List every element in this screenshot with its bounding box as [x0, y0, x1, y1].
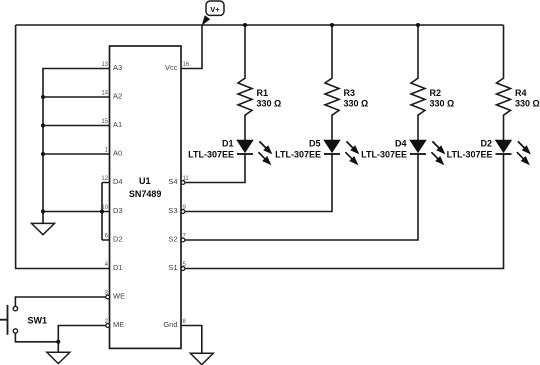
svg-text:330 Ω: 330 Ω [344, 99, 369, 109]
svg-text:D4: D4 [113, 177, 123, 186]
svg-text:R3: R3 [344, 88, 356, 98]
svg-text:S2: S2 [168, 235, 177, 244]
svg-text:4: 4 [105, 262, 109, 268]
svg-text:LTL-307EE: LTL-307EE [188, 150, 234, 160]
svg-text:R2: R2 [430, 88, 442, 98]
svg-text:A0: A0 [113, 149, 122, 158]
svg-text:U1: U1 [139, 176, 151, 186]
svg-text:D1: D1 [113, 263, 123, 272]
svg-text:S4: S4 [168, 177, 177, 186]
svg-text:WE: WE [113, 292, 125, 301]
svg-text:16: 16 [183, 62, 190, 68]
svg-text:R4: R4 [515, 88, 527, 98]
svg-text:8: 8 [183, 319, 187, 325]
svg-text:LTL-307EE: LTL-307EE [447, 150, 493, 160]
svg-text:1: 1 [105, 148, 109, 154]
svg-text:A3: A3 [113, 63, 122, 72]
svg-text:R1: R1 [257, 88, 269, 98]
svg-text:A2: A2 [113, 92, 122, 101]
svg-text:11: 11 [183, 176, 190, 182]
svg-text:330 Ω: 330 Ω [515, 99, 540, 109]
svg-text:Gnd: Gnd [163, 320, 177, 329]
svg-text:V+: V+ [210, 5, 220, 14]
svg-text:D2: D2 [480, 139, 492, 149]
svg-text:SN7489: SN7489 [129, 189, 162, 199]
svg-text:14: 14 [101, 91, 108, 97]
svg-text:D3: D3 [113, 206, 123, 215]
svg-text:330 Ω: 330 Ω [430, 99, 455, 109]
svg-text:LTL-307EE: LTL-307EE [275, 150, 321, 160]
svg-text:LTL-307EE: LTL-307EE [361, 150, 407, 160]
svg-text:15: 15 [101, 119, 108, 125]
svg-text:10: 10 [101, 205, 108, 211]
svg-text:S3: S3 [168, 206, 177, 215]
svg-text:D1: D1 [222, 139, 234, 149]
svg-text:D5: D5 [309, 139, 321, 149]
svg-text:5: 5 [183, 262, 187, 268]
svg-text:6: 6 [105, 234, 109, 240]
svg-text:9: 9 [183, 205, 187, 211]
svg-text:12: 12 [101, 176, 108, 182]
svg-text:ME: ME [113, 320, 124, 329]
svg-text:A1: A1 [113, 120, 122, 129]
svg-text:13: 13 [101, 62, 108, 68]
svg-text:D4: D4 [395, 139, 407, 149]
svg-text:D2: D2 [113, 235, 123, 244]
svg-text:SW1: SW1 [28, 316, 48, 326]
svg-text:S1: S1 [168, 263, 177, 272]
svg-text:330 Ω: 330 Ω [257, 99, 282, 109]
svg-text:Vcc: Vcc [165, 63, 178, 72]
svg-text:7: 7 [183, 234, 187, 240]
